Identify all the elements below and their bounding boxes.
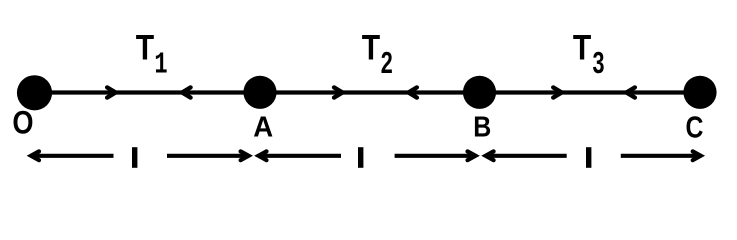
node B: [463, 76, 496, 109]
label T3: [573, 27, 591, 67]
label O: [12, 105, 33, 141]
dimension arrow OA right: [241, 151, 249, 160]
svg-text:2: 2: [381, 45, 393, 80]
label T1: [136, 27, 154, 67]
svg-text:C: C: [686, 110, 704, 144]
svg-text:3: 3: [592, 45, 604, 80]
svg-text:T: T: [362, 27, 380, 67]
svg-text:O: O: [12, 105, 33, 141]
dimension line AB left shaft: [259, 154, 342, 158]
label C: [686, 110, 704, 144]
tension arrow right segment BC: [553, 87, 562, 97]
label l (AB): [358, 147, 363, 168]
label B: [473, 111, 491, 143]
svg-text:B: B: [473, 111, 491, 143]
svg-text:A: A: [253, 110, 273, 143]
dimension arrow AB left: [259, 151, 267, 160]
label l (OA): [132, 147, 137, 168]
node C: [683, 76, 716, 109]
dimension arrow BC right: [693, 151, 701, 160]
label A: [253, 110, 273, 143]
svg-text:T: T: [573, 27, 591, 67]
dimension arrow OA left: [31, 151, 39, 160]
tension arrow left segment BC: [626, 87, 635, 97]
tension arrow right segment AB: [334, 87, 343, 97]
node O: [17, 75, 52, 110]
label l (BC): [586, 147, 591, 168]
dimension line AB right shaft: [395, 154, 476, 158]
dimension arrow AB right: [468, 151, 476, 160]
dimension line BC right shaft: [621, 154, 701, 158]
node A: [243, 76, 276, 109]
label T2: [362, 27, 380, 67]
tension arrow left segment OA: [182, 87, 191, 97]
svg-text:1: 1: [154, 48, 167, 83]
dimension line OA right shaft: [167, 154, 249, 158]
tension arrow right segment OA: [107, 87, 116, 97]
svg-text:T: T: [136, 27, 154, 67]
tension arrow left segment AB: [408, 87, 417, 97]
dimension line BC left shaft: [486, 154, 567, 158]
dimension line OA left shaft: [31, 154, 114, 158]
wire main string O to C: [34, 90, 700, 94]
dimension arrow BC left: [486, 151, 494, 160]
